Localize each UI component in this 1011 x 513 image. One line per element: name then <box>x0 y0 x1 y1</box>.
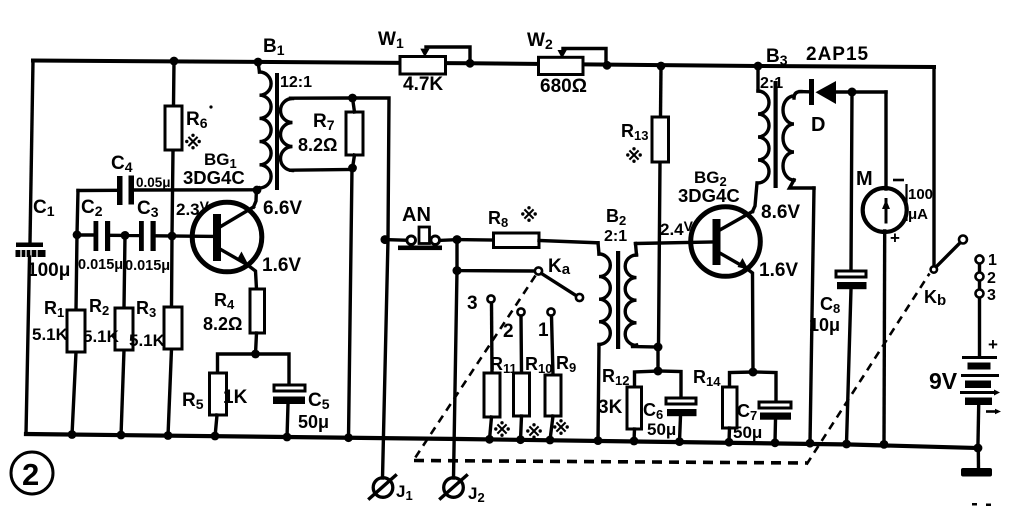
wire B3 secondary bottom to rail <box>810 188 814 444</box>
potentiometer W2 <box>527 30 606 97</box>
battery 9V <box>929 335 1001 414</box>
svg-text:5.1K: 5.1K <box>32 325 69 344</box>
svg-text:+: + <box>988 335 998 354</box>
svg-text:0.05μ: 0.05μ <box>136 175 171 190</box>
wire diode node down to C8 <box>851 92 852 271</box>
svg-text:D: D <box>811 114 825 136</box>
svg-text:+: + <box>890 229 900 248</box>
wire R2 stem <box>124 235 125 308</box>
resistor R13 <box>621 117 669 163</box>
svg-text:0.015μ: 0.015μ <box>78 257 123 273</box>
svg-text:100: 100 <box>908 186 933 203</box>
svg-text:680Ω: 680Ω <box>540 76 587 97</box>
svg-text:3: 3 <box>987 287 996 304</box>
node contact 3 <box>487 295 494 302</box>
svg-text:50μ: 50μ <box>647 420 676 439</box>
resistor R7 <box>298 111 363 155</box>
capacitor C5 <box>273 385 330 432</box>
wire R4 bottom / emitter node <box>256 333 257 354</box>
transistor BG1 <box>176 150 302 276</box>
svg-text:μA: μA <box>908 206 928 223</box>
svg-text:1K: 1K <box>223 387 248 408</box>
svg-text:AN: AN <box>402 204 431 226</box>
wire C4 left <box>78 189 118 193</box>
wire top rail <box>33 61 934 68</box>
wire R7 stems <box>353 98 355 112</box>
pushbutton AN <box>385 204 457 250</box>
svg-text:50μ: 50μ <box>733 423 762 442</box>
dashed link Kb <box>807 274 930 465</box>
potentiometer W1 <box>378 29 470 95</box>
capacitor C4 <box>111 153 171 205</box>
switch Kb <box>924 236 967 310</box>
wire B2 secondary top to BG2 base <box>636 242 714 244</box>
wire B3 sec top to diode <box>800 90 808 94</box>
resistor R4 <box>203 289 265 334</box>
diode D <box>809 79 886 136</box>
wire R1 bottom <box>72 352 76 435</box>
svg-text:3K: 3K <box>598 397 623 418</box>
transformer B3 <box>758 44 869 188</box>
resistor R11 <box>484 354 517 440</box>
transformer B2 <box>598 206 658 349</box>
resistor R10 <box>514 354 553 440</box>
wire rail to ground <box>977 448 981 468</box>
resistor R2 <box>83 296 133 350</box>
switch Ka <box>535 256 583 301</box>
svg-text:2: 2 <box>987 270 996 287</box>
transistor BG2 <box>660 168 800 281</box>
wire battery bottom to rail <box>976 405 980 448</box>
jack J1 <box>370 476 413 504</box>
svg-text:5.1K: 5.1K <box>83 327 120 346</box>
wire diode node to meter <box>884 92 887 189</box>
wire R6/R3 vertical <box>173 61 174 150</box>
svg-text:6.6V: 6.6V <box>263 198 302 219</box>
meter M <box>856 168 933 248</box>
svg-text:3DG4C: 3DG4C <box>183 167 245 188</box>
wire base rail <box>77 233 94 236</box>
svg-text:1: 1 <box>988 252 997 269</box>
node contact 2 <box>517 308 524 315</box>
node contacts 1-3 of Kb <box>976 252 998 356</box>
wire contact3 to R11 <box>490 303 494 373</box>
wire BG2 emitter down <box>746 268 753 372</box>
wire C7 stem <box>753 372 776 402</box>
wire right vertical from top rail <box>932 67 935 266</box>
wire C1 stem top <box>30 61 33 243</box>
wire C1 stem bottom <box>26 257 30 434</box>
wire B2 primary bottom to rail <box>598 345 599 442</box>
wire bottom rail <box>26 434 977 448</box>
wire contact1 to R9 <box>552 316 554 375</box>
svg-text:1.6V: 1.6V <box>759 260 798 281</box>
wire J2 drop <box>454 271 458 478</box>
transformer B1 <box>258 36 313 190</box>
svg-text:4.7K: 4.7K <box>403 74 443 95</box>
node contact 1 <box>547 308 554 315</box>
capacitor C2 <box>78 197 123 273</box>
svg-text:100μ: 100μ <box>27 260 70 281</box>
wire AN node to Ka <box>457 240 535 271</box>
resistor R8 <box>457 206 598 247</box>
resistor R3 <box>129 298 182 350</box>
wire C6 stem <box>658 371 681 398</box>
svg-text:10μ: 10μ <box>809 315 840 335</box>
wire C2-C3 <box>110 234 140 238</box>
wire BG2 collector up to B3 <box>753 183 758 212</box>
dashed link horizontal <box>414 461 808 464</box>
capacitor C1 <box>16 197 71 281</box>
svg-text:5.1K: 5.1K <box>129 331 166 350</box>
wire contact2 to R10 <box>519 316 523 373</box>
wire BG1 collector <box>254 188 257 207</box>
svg-text:1: 1 <box>538 320 549 341</box>
svg-text:2:1: 2:1 <box>760 75 783 92</box>
resistor R6 <box>165 105 213 150</box>
svg-text:3DG4C: 3DG4C <box>678 185 740 206</box>
svg-text:8.6V: 8.6V <box>761 202 800 223</box>
resistor R9 <box>545 353 576 440</box>
svg-text:0.015μ: 0.015μ <box>125 258 170 274</box>
capacitor C8 <box>809 271 867 444</box>
wire emitter node to R14 <box>730 372 754 387</box>
resistor R1 <box>32 298 85 352</box>
wire C5 bottom <box>287 404 288 438</box>
dashed link Ka <box>414 276 536 460</box>
resistor R5 <box>182 373 248 415</box>
resistor R14 <box>693 367 737 442</box>
svg-text:8.2Ω: 8.2Ω <box>203 314 242 334</box>
wire R7 bottom to ground <box>349 168 353 439</box>
svg-text:2AP15: 2AP15 <box>806 44 869 65</box>
capacitor C6 <box>643 398 697 442</box>
svg-text:8.2Ω: 8.2Ω <box>298 135 337 155</box>
svg-text:9V: 9V <box>929 368 958 394</box>
wire AN node down to J1 <box>383 240 389 478</box>
wire BG1 emitter to R4 <box>247 265 257 290</box>
capacitor C7 <box>733 401 791 443</box>
svg-text:3: 3 <box>467 293 478 314</box>
wire R13 vertical <box>659 66 663 117</box>
svg-text:1.6V: 1.6V <box>262 255 301 276</box>
wire node-A vertical (C4/C2/R1) <box>76 191 78 311</box>
wire node to C5 <box>256 354 290 385</box>
svg-text:12:1: 12:1 <box>280 74 312 91</box>
figure number 2 <box>11 452 53 494</box>
wire B1 sec bottom to R7 bottom <box>291 168 353 172</box>
svg-text:2: 2 <box>22 457 39 492</box>
ground <box>961 468 992 506</box>
svg-text:50μ: 50μ <box>298 412 329 432</box>
wire node to R5 <box>218 354 256 373</box>
resistor R12 <box>598 366 642 442</box>
svg-text:M: M <box>856 168 873 190</box>
wire R5 bottom <box>215 415 217 437</box>
capacitor C3 <box>125 198 170 274</box>
wire meter bottom to rail <box>882 231 886 445</box>
jack J2 <box>441 476 485 506</box>
wire C4 right to collector node <box>134 188 257 192</box>
wire B2 node to R12/C6 <box>656 347 659 371</box>
wire C3 to base <box>156 234 213 238</box>
svg-text:2:1: 2:1 <box>604 228 627 245</box>
wire B1 sec top to R7 node and AN corner <box>291 98 390 240</box>
